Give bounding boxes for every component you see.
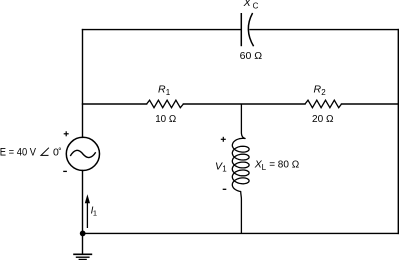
wire left vertical lower — [82, 171, 84, 234]
wire middle right segment — [342, 103, 399, 105]
svg-text:L: L — [262, 163, 267, 172]
wire left vertical upper — [82, 30, 84, 138]
svg-text:R: R — [158, 84, 166, 96]
label R1 — [158, 84, 171, 97]
svg-text:2: 2 — [321, 88, 326, 97]
junction dot — [80, 231, 86, 237]
svg-text:1: 1 — [222, 165, 227, 174]
angle symbol — [41, 148, 49, 156]
svg-text:C: C — [253, 1, 259, 10]
resistor R2 — [305, 100, 342, 108]
wire middle center segment — [183, 103, 305, 105]
wire ground stem — [82, 233, 84, 253]
svg-text:°: ° — [58, 146, 61, 156]
wire right vertical — [397, 30, 399, 234]
label XL = 80 ohm — [254, 159, 300, 172]
ac source E circle — [66, 137, 99, 170]
wire top right segment — [250, 29, 398, 31]
svg-text:1: 1 — [93, 208, 97, 217]
wire middle left segment — [83, 103, 147, 105]
ground symbol — [73, 254, 92, 259]
label plus of source — [64, 131, 69, 136]
label R2 — [314, 84, 327, 97]
ac source sine wave — [70, 150, 95, 157]
svg-text:10 Ω: 10 Ω — [155, 114, 177, 125]
current I1 arrow — [85, 194, 90, 228]
label XC — [243, 0, 259, 10]
capacitor XC left plate — [240, 13, 242, 46]
label I1 — [91, 205, 97, 217]
svg-text:1: 1 — [166, 88, 171, 97]
svg-text:20 Ω: 20 Ω — [312, 114, 334, 125]
svg-text:E = 40 V: E = 40 V — [0, 146, 37, 158]
wire top left segment — [83, 29, 242, 31]
inductor XL coil — [232, 104, 249, 233]
label minus of inductor — [223, 188, 227, 190]
wire bottom — [83, 232, 399, 234]
resistor R1 — [147, 100, 184, 108]
label V1 — [215, 160, 227, 173]
svg-text:X: X — [243, 0, 252, 9]
capacitor XC curved plate — [248, 13, 253, 46]
svg-text:60 Ω: 60 Ω — [240, 51, 263, 62]
label plus of inductor — [221, 137, 226, 142]
label minus of source — [63, 170, 67, 172]
svg-text:= 80 Ω: = 80 Ω — [269, 160, 300, 171]
